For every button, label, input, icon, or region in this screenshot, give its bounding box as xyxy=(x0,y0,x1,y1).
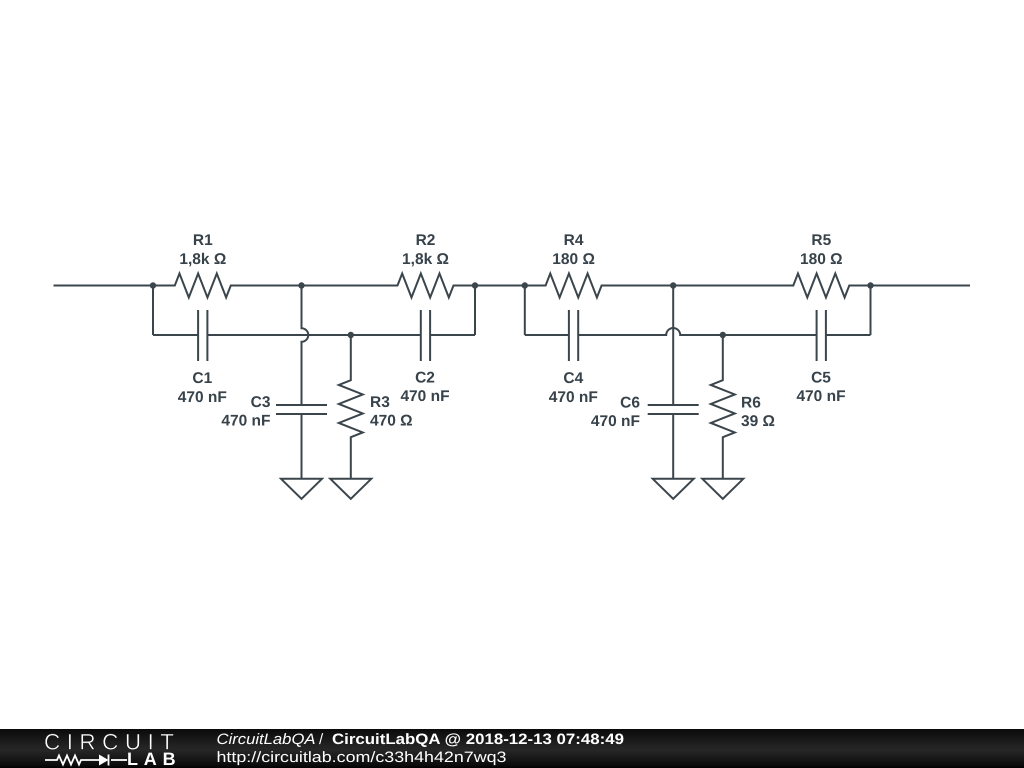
svg-text:/: / xyxy=(319,731,324,748)
svg-text:CircuitLabQA: CircuitLabQA xyxy=(217,731,316,748)
svg-text:470 Ω: 470 Ω xyxy=(370,413,413,430)
svg-text:R1: R1 xyxy=(193,232,213,249)
svg-text:R3: R3 xyxy=(370,394,390,411)
svg-text:R5: R5 xyxy=(811,232,831,249)
svg-text:470 nF: 470 nF xyxy=(591,413,640,430)
svg-text:C2: C2 xyxy=(415,370,435,387)
svg-text:http://circuitlab.com/c33h4h42: http://circuitlab.com/c33h4h42n7wq3 xyxy=(217,749,507,766)
svg-text:C3: C3 xyxy=(251,394,271,411)
svg-text:R6: R6 xyxy=(741,395,761,412)
svg-text:470 nF: 470 nF xyxy=(400,388,449,405)
svg-text:470 nF: 470 nF xyxy=(796,388,845,405)
svg-text:C5: C5 xyxy=(811,370,831,387)
svg-text:39 Ω: 39 Ω xyxy=(741,413,775,430)
svg-text:1,8k Ω: 1,8k Ω xyxy=(179,251,226,268)
svg-text:C1: C1 xyxy=(192,370,212,387)
svg-text:180 Ω: 180 Ω xyxy=(552,251,595,268)
svg-text:470 nF: 470 nF xyxy=(178,389,227,406)
svg-text:470 nF: 470 nF xyxy=(549,389,598,406)
svg-text:CIRCUIT: CIRCUIT xyxy=(44,729,180,754)
svg-text:C6: C6 xyxy=(620,395,640,412)
svg-text:LAB: LAB xyxy=(127,749,178,768)
svg-text:CircuitLabQA @ 2018-12-13 07:4: CircuitLabQA @ 2018-12-13 07:48:49 xyxy=(332,731,624,748)
svg-text:R2: R2 xyxy=(416,232,436,249)
svg-text:C4: C4 xyxy=(563,370,583,387)
svg-text:R4: R4 xyxy=(564,232,584,249)
svg-text:1,8k Ω: 1,8k Ω xyxy=(402,251,449,268)
svg-text:470 nF: 470 nF xyxy=(221,413,270,430)
svg-text:180 Ω: 180 Ω xyxy=(800,251,843,268)
